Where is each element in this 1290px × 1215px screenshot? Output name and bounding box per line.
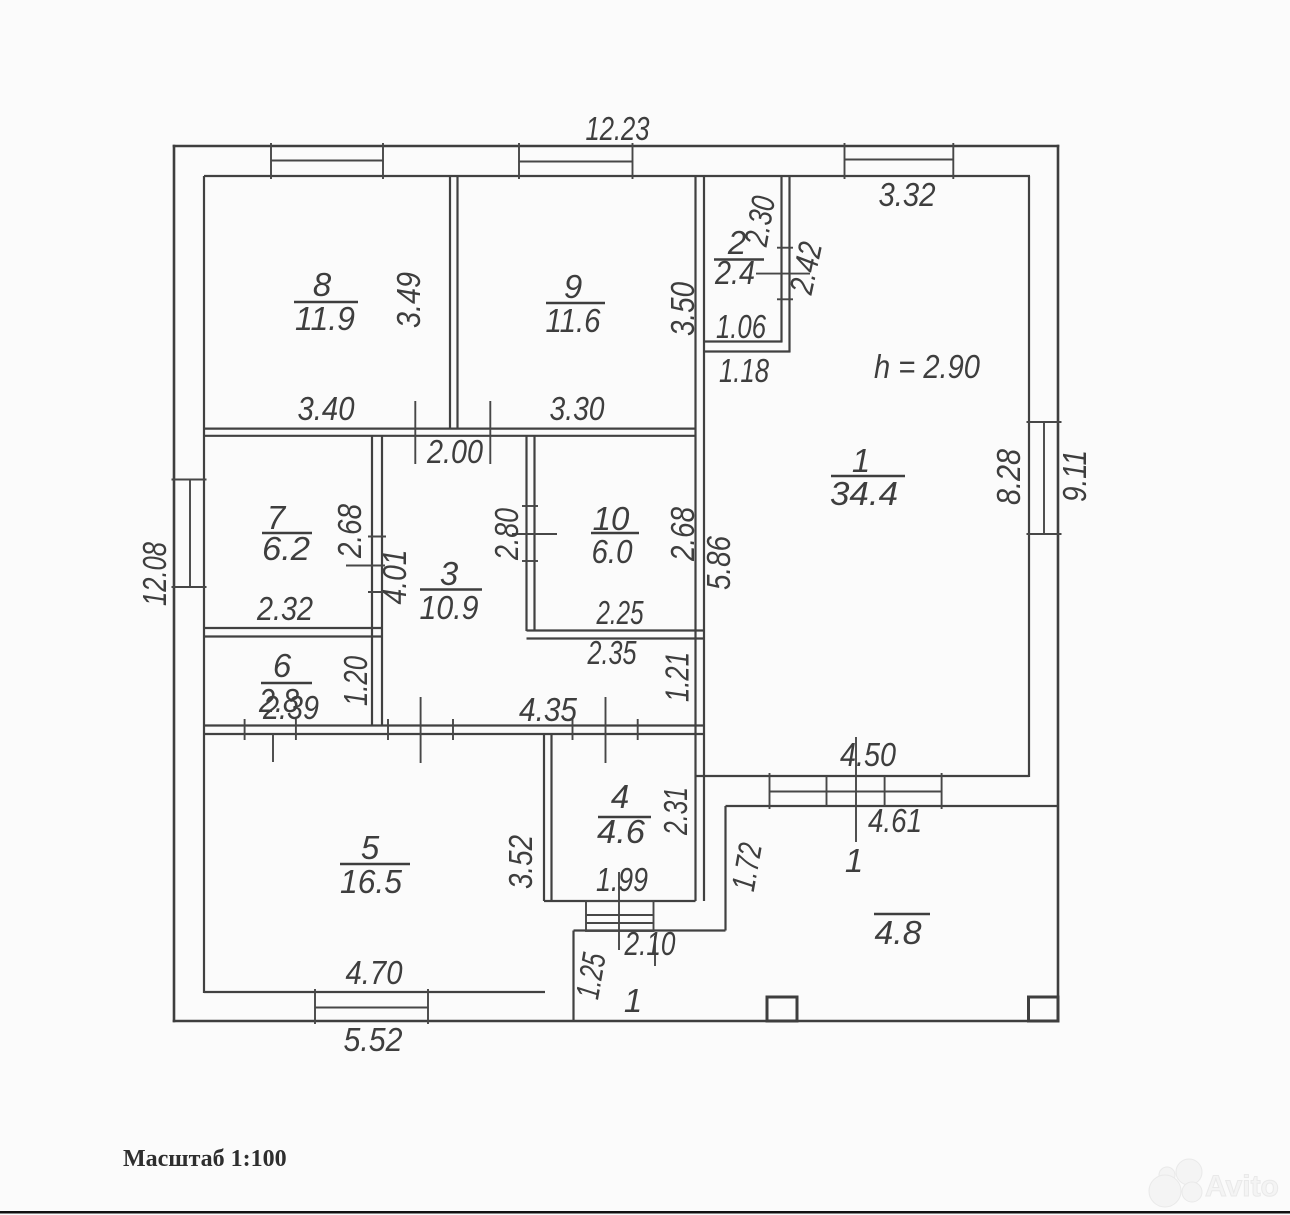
svg-text:3.40: 3.40 [298, 390, 356, 427]
door ticks room 6 bottom [245, 719, 296, 740]
svg-text:2.68: 2.68 [664, 506, 701, 561]
window strip room 1 bottom [770, 773, 942, 809]
tick dim 2.80 [512, 533, 557, 535]
wall rooms 7-6 [204, 628, 382, 637]
svg-text:5.86: 5.86 [700, 535, 737, 590]
long tick dim 4.50 [855, 737, 857, 842]
door ticks room 7 right wall [368, 537, 386, 593]
svg-text:Avito: Avito [1205, 1170, 1279, 1203]
room 10 label [591, 500, 639, 570]
svg-text:2.68: 2.68 [331, 503, 368, 558]
long tick dim 1.99 [618, 872, 620, 950]
wall inner left [203, 176, 205, 993]
svg-text:3.49: 3.49 [390, 272, 427, 328]
svg-text:11.9: 11.9 [295, 300, 355, 337]
room 3 label [420, 555, 483, 626]
svg-text:4: 4 [611, 778, 629, 815]
wall outer right [1057, 145, 1060, 1023]
room 9 label [546, 268, 606, 339]
svg-text:9: 9 [564, 268, 582, 305]
svg-text:4.70: 4.70 [346, 954, 404, 991]
wall rooms 3-10 [527, 436, 535, 631]
wall outer bottom [173, 1020, 1060, 1023]
svg-text:4.50: 4.50 [840, 736, 897, 773]
svg-text:3: 3 [440, 555, 459, 592]
svg-text:2.00: 2.00 [426, 433, 483, 470]
wall outer left [173, 145, 176, 1023]
wall room 1 bottom [696, 776, 1059, 806]
wall hall bottom [204, 726, 704, 735]
wall rooms 7-3 [372, 436, 382, 726]
terrace area 4.8 [874, 914, 930, 951]
window WR right wall room 1 [1027, 422, 1062, 534]
svg-text:10: 10 [593, 500, 630, 537]
svg-text:1.99: 1.99 [596, 861, 648, 898]
tick dim 4.01 [346, 565, 385, 567]
room 6 label [258, 647, 319, 726]
svg-text:3.50: 3.50 [664, 281, 701, 336]
svg-text:2.4: 2.4 [714, 254, 755, 291]
room 8 label [294, 266, 358, 337]
column right [1029, 997, 1059, 1021]
svg-text:12.08: 12.08 [136, 542, 173, 606]
svg-text:6: 6 [273, 647, 292, 684]
wall room 2 bottom [704, 342, 791, 352]
room 1 label [830, 442, 905, 512]
svg-text:2.32: 2.32 [256, 590, 313, 627]
door ticks room 2 right wall [777, 248, 793, 300]
bottom border line [0, 1211, 1290, 1214]
room 7 label [262, 499, 312, 567]
svg-text:1: 1 [624, 982, 642, 1019]
door ticks hall to room 5 [388, 719, 453, 740]
svg-text:1.21: 1.21 [659, 652, 696, 702]
tick dim 2.00 left [414, 401, 416, 464]
svg-text:34.4: 34.4 [830, 475, 898, 512]
svg-text:1: 1 [845, 842, 863, 879]
svg-text:12.23: 12.23 [586, 110, 650, 147]
svg-text:Масштаб 1:100: Масштаб 1:100 [123, 1146, 287, 1172]
svg-text:2.80: 2.80 [488, 507, 525, 560]
wall room 4 bottom [544, 900, 696, 902]
terrace left wall [724, 806, 726, 931]
long tick dim 4.35 left [420, 697, 422, 763]
door leaf room 6 [272, 734, 274, 762]
tick dim 2.10 [654, 936, 656, 966]
svg-text:4.6: 4.6 [597, 813, 646, 850]
long tick dim 4.35 right [605, 697, 607, 763]
watermark avito logo [1149, 1159, 1279, 1207]
svg-text:10.9: 10.9 [420, 589, 479, 626]
wall room 2 right [782, 176, 790, 352]
room 5 label [340, 829, 410, 900]
wall inner right [1028, 176, 1030, 777]
wall inner top [204, 175, 1030, 177]
wall room 5 right [544, 734, 552, 901]
tick dim 2.00 right [489, 401, 491, 464]
svg-text:4.35: 4.35 [519, 691, 578, 728]
svg-text:2.31: 2.31 [657, 787, 694, 836]
svg-text:4.61: 4.61 [868, 802, 922, 839]
door ticks hall to room 4 [573, 719, 638, 740]
svg-text:2.10: 2.10 [624, 925, 676, 962]
svg-text:8.28: 8.28 [990, 448, 1027, 505]
svg-text:6.0: 6.0 [592, 533, 634, 570]
svg-text:1.18: 1.18 [719, 352, 769, 389]
svg-text:5.52: 5.52 [344, 1021, 403, 1058]
window W2 top wall room 9 [519, 143, 633, 179]
svg-text:1: 1 [852, 442, 870, 479]
svg-text:h = 2.90: h = 2.90 [874, 348, 981, 385]
window W3 top wall room 1 [845, 143, 954, 179]
wall inner bottom room 5 [204, 991, 545, 993]
svg-text:3.52: 3.52 [502, 835, 539, 889]
room 4 label [597, 778, 651, 850]
window WL left wall room 7 [172, 480, 207, 588]
window W5 bottom wall room 5 [315, 989, 428, 1024]
porch window door [586, 901, 654, 931]
svg-text:2.39: 2.39 [262, 689, 319, 726]
leader line 2.4 [756, 273, 810, 275]
svg-text:4.01: 4.01 [376, 550, 413, 605]
svg-text:5: 5 [361, 829, 380, 866]
porch outline [574, 931, 726, 1022]
wall room 10 bottom [527, 631, 705, 639]
svg-text:1.20: 1.20 [337, 656, 374, 706]
svg-text:16.5: 16.5 [340, 863, 403, 900]
svg-text:9.11: 9.11 [1056, 450, 1093, 502]
wall outer top [173, 145, 1060, 148]
wall under rooms 8,9 [204, 429, 696, 436]
svg-text:2.35: 2.35 [587, 634, 637, 671]
door ticks room 10 left wall [522, 506, 538, 561]
svg-text:4.8: 4.8 [875, 914, 923, 951]
column left [767, 997, 797, 1021]
svg-text:11.6: 11.6 [546, 302, 602, 339]
svg-text:6.2: 6.2 [262, 530, 310, 567]
window W1 top wall room 8 [271, 143, 383, 179]
wall long vertical rooms 9,10,hall vs room 1 [696, 176, 705, 901]
svg-text:3.32: 3.32 [879, 176, 936, 213]
wall rooms 8-9 [450, 176, 458, 429]
room 2 label [714, 224, 764, 291]
svg-text:3.30: 3.30 [550, 390, 606, 427]
svg-text:2.25: 2.25 [596, 594, 644, 631]
svg-text:8: 8 [313, 266, 332, 303]
svg-text:1.06: 1.06 [716, 308, 766, 345]
